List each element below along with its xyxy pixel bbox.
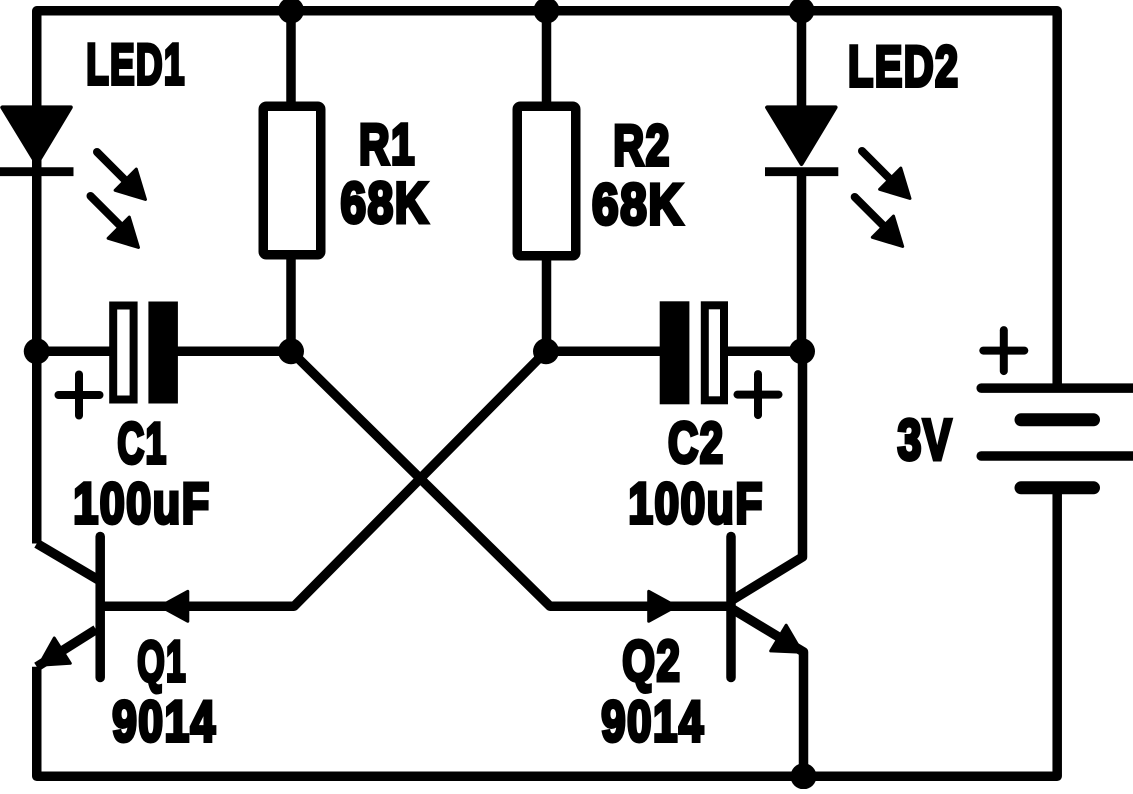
wire Q1 emitter diagonal [37,630,96,667]
node dot R2 bottom [533,338,559,364]
LED1 light arrow 1 [97,152,146,200]
svg-text:100uF: 100uF [628,472,764,536]
svg-text:C1: C1 [117,412,167,476]
battery B1 plate 2 short [1021,413,1094,426]
svg-text:C2: C2 [668,412,725,476]
wire C2 left lead [546,347,661,357]
LED1 light arrow 2 [91,196,139,248]
capacitor C2 plus sign [738,374,779,415]
wire C1 right lead [177,347,291,357]
svg-text:R1: R1 [359,113,416,177]
wire cross-couple R2 node to Q1 base [105,351,547,606]
node dot top R2 [534,0,560,24]
wire top rail + left rail + right rail upper [37,11,1057,544]
transistor Q1 bar [95,537,105,678]
battery B1 plate 4 short [1021,481,1094,494]
svg-text:Q2: Q2 [622,630,681,694]
svg-text:68K: 68K [341,172,430,236]
wire C2 right lead [727,347,802,357]
battery B1 plate 3 long [981,451,1133,461]
capacitor C2 positive plate (solid) [660,301,690,404]
svg-text:Q1: Q1 [137,630,187,694]
node dot LED2 C2 [789,338,815,364]
node dot top R1 [278,0,304,24]
LED2 cathode bar [765,167,838,176]
wire Q2 collector lead [732,351,803,600]
battery B1 plus sign [983,330,1024,371]
svg-text:R2: R2 [613,114,671,178]
wire R2 top lead [542,11,552,105]
wire R1 top lead [286,11,296,105]
LED2 light arrow 1 [862,151,910,199]
node dot bottom rail [791,763,817,789]
node dot left C1 [24,338,50,364]
svg-text:68K: 68K [592,173,685,237]
capacitor C2 negative plate (hollow) [705,305,724,400]
LED1 triangle [2,107,71,164]
svg-text:3V: 3V [898,409,954,473]
capacitor C1 positive plate (solid) [148,302,178,404]
transistor Q1 base arrowhead [160,591,188,621]
transistor Q1 emitter arrowhead [39,638,70,665]
transistor Q2 base arrowhead [649,591,677,621]
wire C1 left lead [37,347,114,357]
svg-text:LED2: LED2 [848,35,960,99]
node dot R1 bottom [278,338,304,364]
wire Q1 collector diagonal [37,544,100,582]
capacitor C1 plus sign [59,375,100,416]
svg-text:100uF: 100uF [73,472,211,536]
LED2 light arrow 2 [855,197,903,247]
wire Q2 emitter diagonal [732,609,804,777]
wire R2 bottom lead [542,258,552,351]
transistor Q2 bar [726,537,736,678]
svg-text:LED1: LED1 [86,33,186,97]
resistor R1 body [263,106,321,255]
battery B1 plate 1 long [981,383,1133,393]
wire bottom rail + left lower + right lower [37,488,1057,776]
wire LED2 top lead [797,11,807,111]
wire LED2 bottom lead [797,172,807,351]
LED2 triangle [767,107,836,164]
capacitor C1 negative plate (hollow) [113,306,133,400]
node dot top LED2 [789,0,815,24]
svg-text:9014: 9014 [601,690,705,754]
transistor Q2 emitter arrowhead [771,625,802,652]
wire cross-couple R1 node to Q2 base [291,351,727,606]
svg-text:9014: 9014 [112,690,217,754]
resistor R2 body [517,106,576,256]
wire R1 bottom lead [286,257,296,351]
LED1 cathode bar [0,167,74,176]
